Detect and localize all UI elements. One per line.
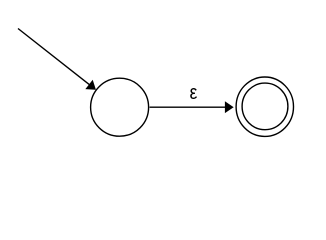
wire: epsilon transition shaft	[150, 106, 226, 108]
start arrowhead	[86, 81, 95, 90]
transition arrowhead	[225, 102, 233, 112]
wire: start arrow shaft	[18, 29, 89, 85]
accepting state q1 inner circle	[242, 83, 288, 130]
state q0 (circle)	[91, 78, 149, 136]
label epsilon	[190, 88, 197, 99]
accepting state q1 outer circle	[236, 77, 293, 136]
